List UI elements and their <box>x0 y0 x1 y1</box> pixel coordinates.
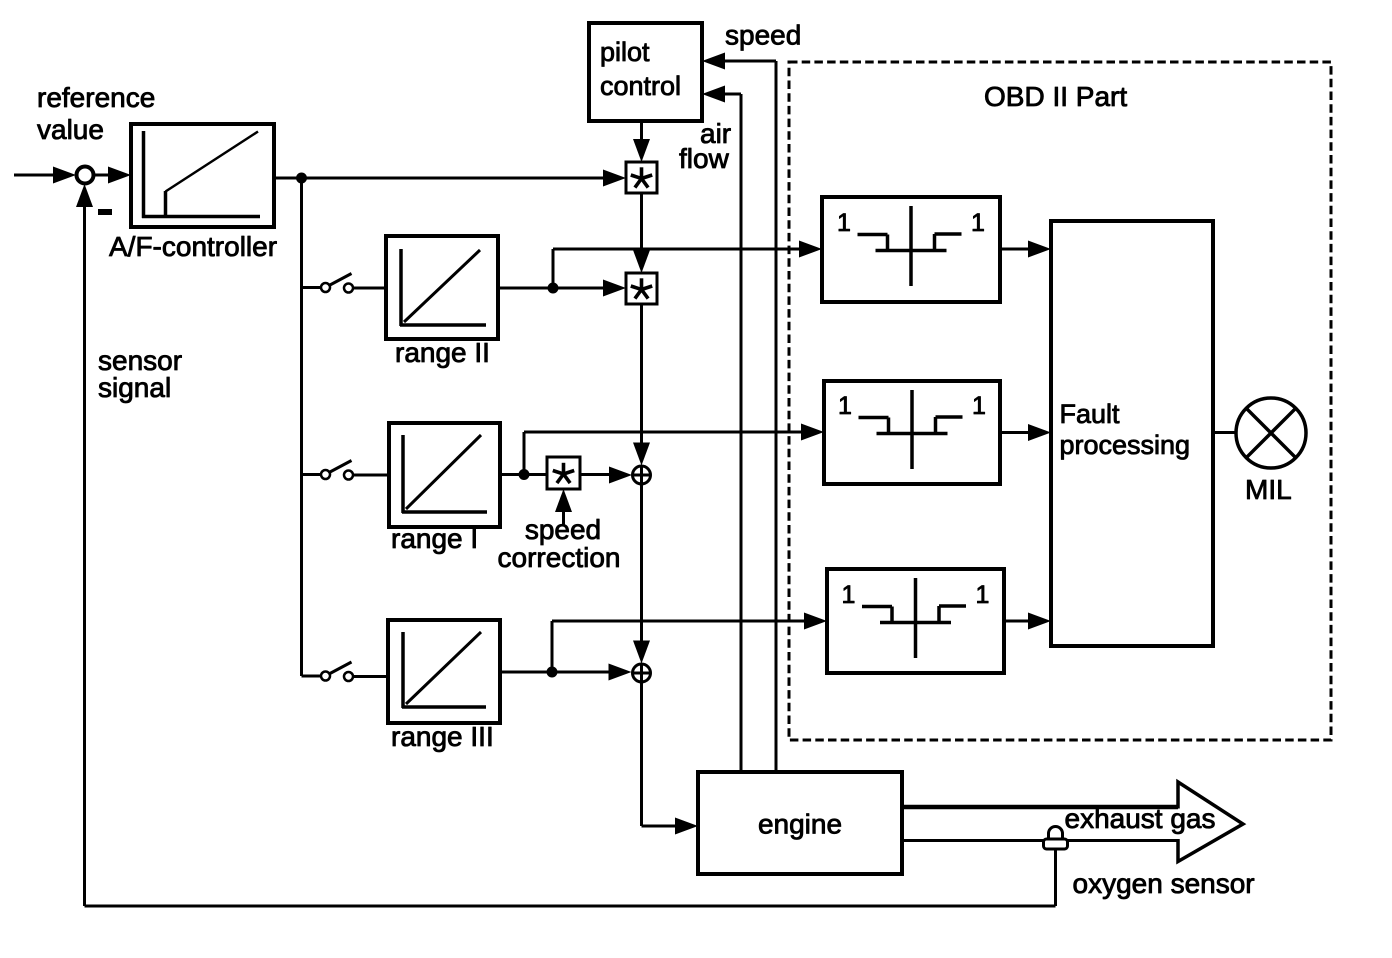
MIL lamp <box>1236 398 1306 468</box>
svg-text:engine: engine <box>758 809 842 840</box>
wire adder A1 to adder A2 <box>640 485 643 643</box>
label speed correction <box>498 514 621 573</box>
wire relay K1 to fault processing <box>1000 248 1030 251</box>
label reference value <box>37 82 155 145</box>
wire exhaust lower line <box>902 839 1178 842</box>
svg-text:range III: range III <box>391 721 494 752</box>
svg-text:exhaust gas: exhaust gas <box>1065 803 1216 834</box>
relay block K1 (window comparator) <box>822 197 1000 302</box>
adder A2 <box>632 664 651 683</box>
svg-text:1: 1 <box>838 392 852 420</box>
block fault processing <box>1051 221 1213 646</box>
svg-text:Fault: Fault <box>1060 399 1121 429</box>
svg-text:range I: range I <box>391 523 478 554</box>
junction node range II output <box>548 283 559 294</box>
arrowhead into relay K2 <box>801 424 824 441</box>
wire speed input to pilot control <box>725 61 776 772</box>
arrowhead into multiplier M1 <box>603 170 626 187</box>
wire feedback bottom <box>85 905 1056 908</box>
label sensor signal <box>98 345 182 403</box>
minus sign at summing junction <box>98 209 112 215</box>
pin label 1 left of relay K1 <box>837 209 851 237</box>
label range I <box>391 523 478 554</box>
arrowhead into speed correction from below <box>555 489 572 512</box>
wire pilot control to multiplier M1 <box>640 121 643 141</box>
wire range II node to relay K1 <box>553 249 801 288</box>
wire relay K2 to fault processing <box>1000 431 1030 434</box>
svg-text:1: 1 <box>972 392 986 420</box>
arrowhead into relay K1 <box>799 241 822 258</box>
label pilot control <box>600 37 681 101</box>
wire adder A2 to engine <box>642 683 678 827</box>
label OBD II Part <box>984 81 1127 112</box>
wire vertical bus <box>300 178 303 676</box>
multiplier M2 <box>626 273 657 304</box>
junction node range I output <box>519 469 530 480</box>
svg-text:value: value <box>37 114 104 145</box>
label exhaust gas <box>1065 803 1216 834</box>
label oxygen sensor <box>1073 868 1255 899</box>
multiplier M1 <box>626 162 657 193</box>
label engine <box>758 809 842 840</box>
OBD II dashed enclosure <box>789 62 1331 740</box>
junction node on controller output <box>296 173 307 184</box>
relay block K2 (window comparator) <box>824 381 1000 484</box>
arrowhead pilot control into multiplier M1 <box>633 139 650 162</box>
arrowhead relay K3 into fault processing <box>1028 613 1051 630</box>
svg-text:speed: speed <box>725 20 801 51</box>
svg-text:1: 1 <box>976 581 990 609</box>
switch S1 (range I branch) <box>302 461 390 480</box>
svg-text:correction: correction <box>498 542 621 573</box>
label MIL <box>1245 474 1292 505</box>
label range III <box>391 721 494 752</box>
arrowhead relay K2 into fault processing <box>1028 424 1051 441</box>
oxygen sensor symbol <box>1044 827 1068 849</box>
wire feedback left vertical <box>83 203 86 906</box>
pin label 1 right of relay K3 <box>976 581 990 609</box>
svg-text:control: control <box>600 71 681 101</box>
svg-text:A/F-controller: A/F-controller <box>109 231 277 262</box>
block range I <box>389 423 500 527</box>
wire air flow input to pilot control <box>725 94 741 772</box>
svg-text:pilot: pilot <box>600 37 650 67</box>
label speed <box>725 20 801 51</box>
summing junction <box>77 167 94 184</box>
wire exhaust upper line <box>902 805 1178 810</box>
block engine <box>698 772 902 874</box>
wire multiplier M2 to adder A1 <box>640 304 643 444</box>
wire oxygen sensor down <box>1054 849 1057 906</box>
svg-text:speed: speed <box>525 514 601 545</box>
wire relay K3 to fault processing <box>1004 620 1030 623</box>
arrowhead into adder A2 <box>609 664 632 681</box>
adder A1 <box>632 466 651 485</box>
svg-text:reference: reference <box>37 82 155 113</box>
label range II <box>395 337 490 368</box>
svg-text:flow: flow <box>679 143 730 174</box>
svg-text:range II: range II <box>395 337 490 368</box>
wire speed correction input from below <box>562 510 565 525</box>
wire input reference value <box>14 174 56 177</box>
wire range I node to relay K2 <box>524 432 803 475</box>
arrowhead relay K1 into fault processing <box>1028 241 1051 258</box>
arrowhead into relay K3 <box>804 613 827 630</box>
label A/F-controller <box>109 231 277 262</box>
arrowhead speed into pilot control <box>702 53 725 70</box>
svg-text:1: 1 <box>842 581 856 609</box>
wire A/F-controller to multiplier M1 <box>274 177 606 180</box>
wire multiplier M1 to multiplier M2 <box>640 193 643 252</box>
wire fault processing to MIL <box>1213 431 1237 434</box>
switch S2 (range II branch) <box>302 274 387 293</box>
arrowhead into adder A2 from above <box>633 641 650 664</box>
arrowhead into adder A1 from above <box>633 443 650 466</box>
svg-text:OBD II Part: OBD II Part <box>984 81 1127 112</box>
multiplier speed correction <box>547 457 580 489</box>
relay block K3 (window comparator) <box>827 569 1004 673</box>
pin label 1 right of relay K2 <box>972 392 986 420</box>
exhaust gas arrowhead outline <box>1178 782 1243 862</box>
switch S3 (range III branch) <box>302 662 389 681</box>
junction node range III output <box>547 667 558 678</box>
arrowhead into adder A1 <box>609 467 632 484</box>
svg-text:1: 1 <box>837 209 851 237</box>
wire range III output to adder A2 <box>500 671 610 674</box>
arrowhead into multiplier M2 <box>603 280 626 297</box>
arrowhead feedback into summing junction <box>76 184 93 207</box>
block A/F-controller <box>131 124 274 227</box>
svg-text:signal: signal <box>98 372 171 403</box>
wire summing junction to A/F-controller <box>93 174 111 177</box>
block range III <box>388 620 500 723</box>
arrowhead air flow into pilot control <box>702 86 725 103</box>
label fault processing <box>1060 399 1191 460</box>
arrowhead into summing junction <box>53 167 76 184</box>
arrowhead into multiplier M2 <box>633 250 650 273</box>
pin label 1 right of relay K1 <box>971 209 985 237</box>
svg-text:1: 1 <box>971 209 985 237</box>
svg-text:oxygen sensor: oxygen sensor <box>1073 868 1255 899</box>
wire speed correction to adder A1 <box>580 473 611 476</box>
wire range III node to relay K3 <box>552 621 806 672</box>
label air flow <box>679 118 731 174</box>
arrowhead into A/F-controller <box>108 167 131 184</box>
block range II <box>386 236 498 339</box>
wire range I output to speed correction <box>500 473 547 476</box>
wire range II output to multiplier M2 <box>498 287 606 290</box>
pin label 1 left of relay K3 <box>842 581 856 609</box>
block pilot control <box>589 23 702 121</box>
arrowhead into engine <box>675 818 698 835</box>
svg-text:MIL: MIL <box>1245 474 1292 505</box>
pin label 1 left of relay K2 <box>838 392 852 420</box>
svg-text:processing: processing <box>1060 430 1191 460</box>
